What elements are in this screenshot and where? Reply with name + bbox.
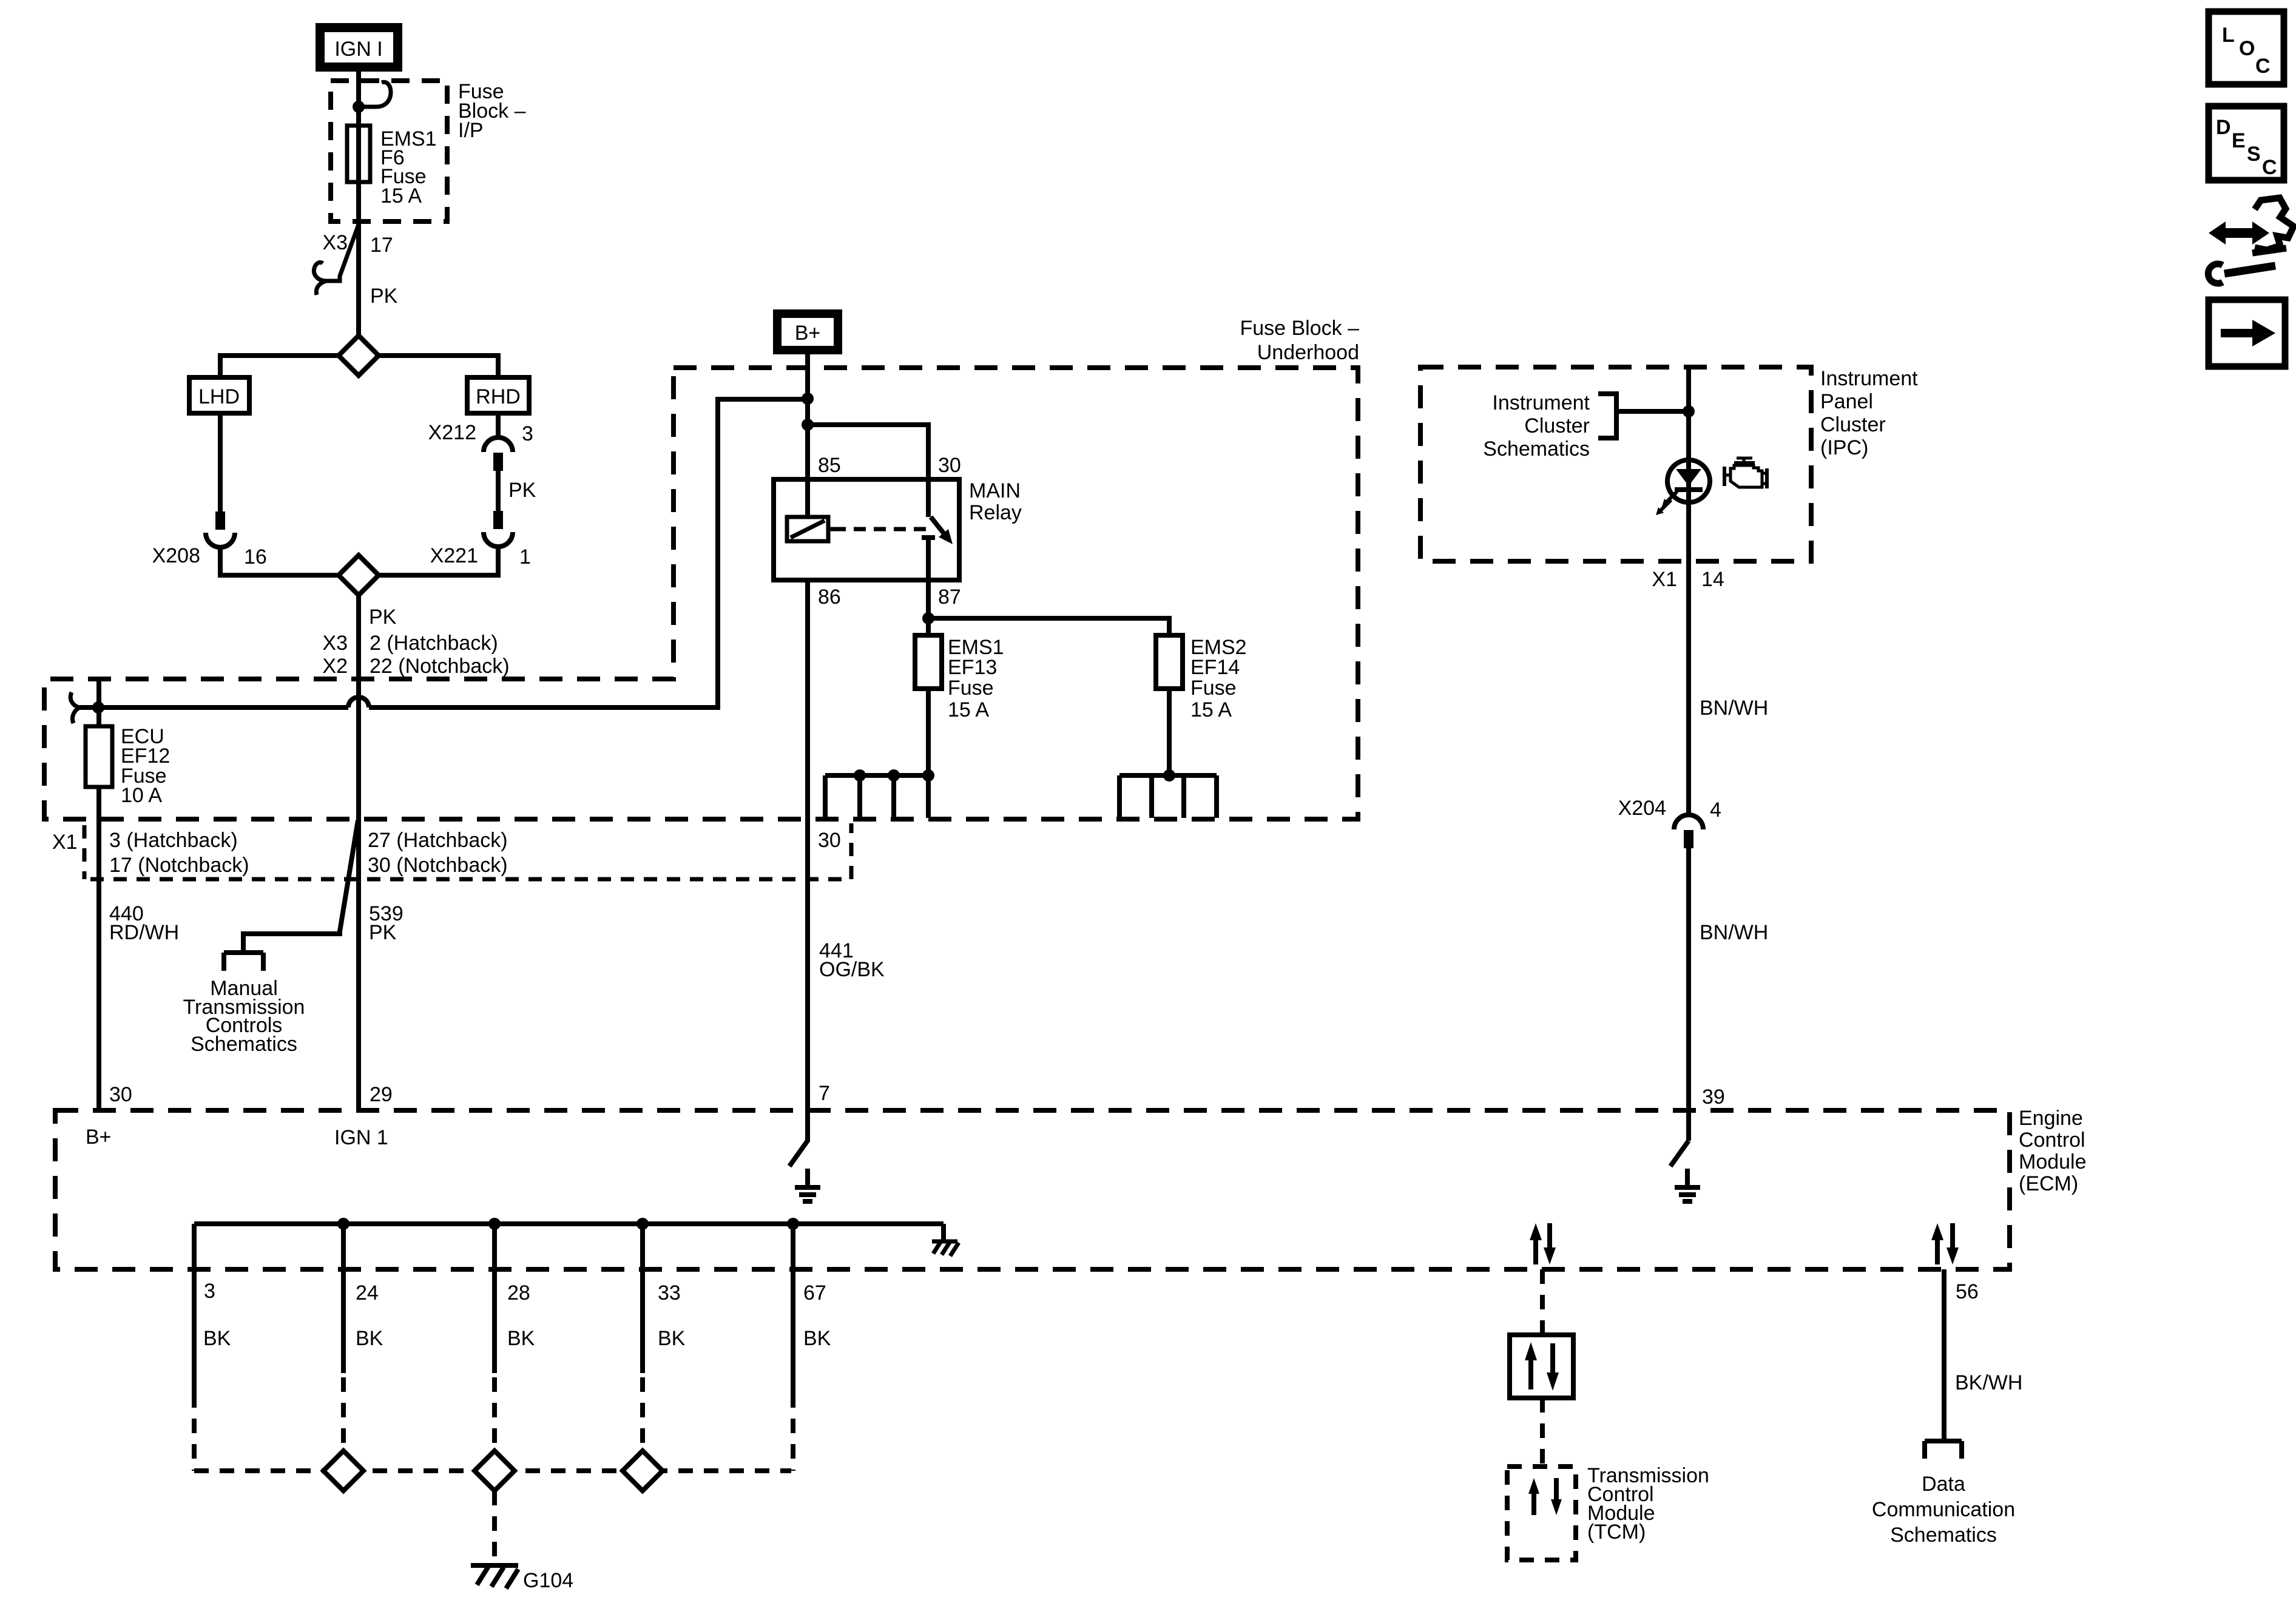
svg-text:BK: BK: [803, 1327, 831, 1350]
svg-text:C: C: [2255, 55, 2271, 78]
svg-text:IGN 1: IGN 1: [334, 1126, 388, 1149]
svg-text:B+: B+: [795, 322, 821, 345]
svg-text:PK: PK: [369, 921, 397, 944]
svg-text:OG/BK: OG/BK: [819, 958, 885, 981]
svg-text:PK: PK: [370, 285, 398, 308]
svg-text:30 (Notchback): 30 (Notchback): [368, 854, 508, 877]
svg-text:(ECM): (ECM): [2019, 1172, 2078, 1195]
svg-text:15 A: 15 A: [380, 184, 422, 208]
svg-text:X212: X212: [428, 421, 476, 444]
svg-text:Fuse: Fuse: [948, 677, 994, 700]
svg-text:BN/WH: BN/WH: [1700, 697, 1768, 720]
svg-text:EF13: EF13: [948, 656, 997, 679]
svg-text:30: 30: [109, 1083, 132, 1106]
svg-text:30: 30: [818, 829, 841, 852]
svg-text:Relay: Relay: [969, 501, 1022, 524]
svg-text:1: 1: [519, 545, 531, 569]
svg-text:29: 29: [370, 1083, 393, 1106]
svg-text:C: C: [2262, 156, 2277, 179]
svg-text:Fuse Block –: Fuse Block –: [1240, 317, 1359, 340]
svg-text:BK: BK: [658, 1327, 686, 1350]
svg-text:3: 3: [522, 422, 533, 445]
svg-text:(TCM): (TCM): [1587, 1521, 1646, 1544]
svg-text:LHD: LHD: [198, 385, 240, 408]
svg-text:Control: Control: [2019, 1129, 2085, 1152]
svg-text:EF14: EF14: [1190, 656, 1240, 679]
svg-text:Cluster: Cluster: [1524, 414, 1590, 437]
svg-text:L: L: [2222, 24, 2235, 47]
svg-text:BK: BK: [356, 1327, 383, 1350]
svg-text:3 (Hatchback): 3 (Hatchback): [109, 829, 238, 852]
svg-text:85: 85: [818, 454, 841, 477]
svg-text:E: E: [2232, 129, 2246, 152]
svg-text:X1: X1: [1652, 568, 1677, 591]
svg-text:24: 24: [356, 1281, 379, 1305]
svg-text:RD/WH: RD/WH: [109, 921, 179, 944]
svg-text:87: 87: [938, 586, 961, 609]
svg-text:X208: X208: [152, 544, 200, 567]
svg-text:2 (Hatchback): 2 (Hatchback): [370, 632, 498, 655]
svg-text:PK: PK: [369, 606, 397, 629]
svg-text:Schematics: Schematics: [1890, 1524, 1997, 1547]
svg-text:14: 14: [1701, 568, 1724, 591]
svg-text:BK: BK: [203, 1327, 231, 1350]
svg-text:27 (Hatchback): 27 (Hatchback): [368, 829, 508, 852]
svg-text:39: 39: [1702, 1085, 1725, 1109]
svg-text:16: 16: [244, 545, 267, 569]
svg-text:Communication: Communication: [1872, 1498, 2015, 1521]
svg-text:17 (Notchback): 17 (Notchback): [109, 854, 249, 877]
svg-text:X3: X3: [322, 231, 348, 254]
svg-text:Panel: Panel: [1820, 390, 1873, 413]
svg-text:Cluster: Cluster: [1820, 413, 1886, 436]
svg-text:G104: G104: [523, 1569, 573, 1592]
svg-text:67: 67: [803, 1281, 826, 1305]
svg-text:4: 4: [1710, 798, 1721, 822]
svg-text:Schematics: Schematics: [1483, 437, 1590, 461]
svg-text:PK: PK: [508, 479, 536, 502]
svg-text:7: 7: [819, 1082, 830, 1105]
svg-text:10 A: 10 A: [121, 784, 162, 807]
svg-text:22 (Notchback): 22 (Notchback): [370, 655, 510, 678]
svg-text:Underhood: Underhood: [1257, 341, 1359, 364]
svg-text:17: 17: [370, 234, 393, 257]
svg-text:28: 28: [507, 1281, 530, 1305]
svg-text:Module: Module: [2019, 1150, 2087, 1173]
svg-text:BK/WH: BK/WH: [1955, 1371, 2022, 1394]
svg-text:Engine: Engine: [2019, 1107, 2083, 1130]
svg-text:IGN I: IGN I: [334, 38, 382, 61]
svg-text:B+: B+: [86, 1126, 112, 1149]
svg-text:Data: Data: [1922, 1473, 1965, 1496]
svg-text:X221: X221: [430, 544, 478, 567]
svg-text:BN/WH: BN/WH: [1700, 921, 1768, 944]
svg-text:Instrument: Instrument: [1492, 391, 1590, 414]
svg-text:X204: X204: [1618, 797, 1666, 820]
svg-text:RHD: RHD: [476, 385, 521, 408]
svg-text:MAIN: MAIN: [969, 479, 1021, 502]
svg-text:X3: X3: [322, 632, 348, 655]
svg-text:(IPC): (IPC): [1820, 436, 1868, 459]
svg-text:86: 86: [818, 586, 841, 609]
svg-text:15 A: 15 A: [948, 698, 989, 721]
svg-text:S: S: [2247, 143, 2261, 166]
svg-text:Schematics: Schematics: [191, 1033, 297, 1056]
svg-text:I/P: I/P: [458, 119, 484, 142]
svg-text:3: 3: [204, 1280, 215, 1303]
svg-text:33: 33: [658, 1281, 681, 1305]
svg-text:30: 30: [938, 454, 961, 477]
svg-text:D: D: [2216, 116, 2231, 139]
svg-text:Instrument: Instrument: [1820, 367, 1918, 390]
svg-text:O: O: [2239, 37, 2255, 60]
svg-text:56: 56: [1956, 1280, 1979, 1303]
svg-text:Fuse: Fuse: [1190, 677, 1237, 700]
svg-text:BK: BK: [507, 1327, 535, 1350]
svg-text:X2: X2: [322, 655, 348, 678]
svg-text:X1: X1: [52, 831, 78, 854]
svg-text:15 A: 15 A: [1190, 698, 1232, 721]
